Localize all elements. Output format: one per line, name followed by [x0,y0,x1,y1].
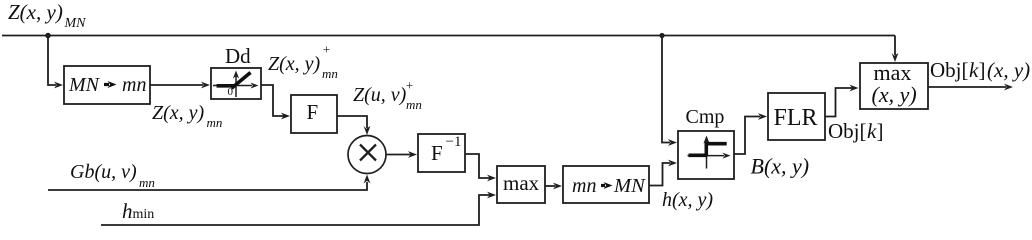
svg-text:mn: mn [572,175,596,197]
label hmin [122,199,154,223]
svg-text:Obj[: Obj[ [930,58,969,82]
svg-text:F: F [307,100,319,124]
wire MN-mn to Dd [150,84,203,86]
block F-1 [418,134,465,172]
svg-text:MN: MN [64,16,87,31]
svg-text:h(x, y): h(x, y) [662,189,713,211]
wire max to mn-MN [545,185,555,187]
svg-text:MN: MN [68,74,101,96]
svg-text:Z(x, y): Z(x, y) [152,102,205,124]
block Dd deadzone [211,68,261,99]
block F [291,95,337,133]
wire main top line [2,35,895,37]
label Z(u,v)+mn [353,78,422,113]
svg-text:h: h [122,199,133,223]
block Cmp comparator [678,131,734,179]
svg-text:−1: −1 [446,134,462,150]
wire hmin to max [101,195,490,225]
svg-text:mn: mn [139,175,155,190]
block mn->MN [563,166,649,203]
svg-text:mn: mn [322,66,338,81]
svg-text:+: + [322,42,331,57]
wire Finv to max [465,154,490,178]
svg-text:Z(x, y): Z(x, y) [268,53,321,75]
wire Gb input to multiplier [48,182,367,190]
svg-text:mn: mn [122,74,146,96]
svg-text:]: ] [979,58,986,82]
svg-text:Z(u, v): Z(u, v) [353,84,407,106]
label Z(x,y)MN input [8,0,86,31]
wire mn-MN to Cmp lower [649,163,670,186]
svg-text:k: k [969,58,979,82]
node junction A [45,33,51,39]
svg-text:B(x, y): B(x, y) [751,154,810,179]
block max2 [860,60,928,109]
wire main line to max2 top [894,36,896,56]
svg-text:(x, y): (x, y) [872,82,917,107]
svg-text:FLR: FLR [774,105,818,131]
node junction B [659,33,664,38]
svg-text:mn: mn [207,115,223,130]
svg-text:MN: MN [613,175,646,197]
wire Dd to F [261,85,284,116]
wire drop to MN-mn [48,36,56,86]
svg-text:Z(x, y): Z(x, y) [8,0,63,24]
svg-text:(x, y): (x, y) [987,58,1030,82]
block max [497,166,545,203]
wire output [928,86,1006,88]
label Obj[k] [828,119,884,143]
wire FLR to max2 [825,88,852,117]
label Z(x,y)mn [152,102,222,130]
wire main line to Cmp upper [662,36,670,143]
svg-text:Dd: Dd [225,44,251,68]
svg-text:]: ] [877,119,884,143]
label Gb(u,v)mn [70,161,155,190]
label Z(x,y)+mn [268,42,338,82]
label Obj[k](x,y) output [930,58,1030,82]
wire F to multiplier [337,116,367,128]
svg-text:Obj[: Obj[ [828,119,867,143]
block FLR [768,93,825,140]
svg-text:min: min [133,207,155,222]
svg-text:Cmp: Cmp [686,106,725,128]
svg-text:k: k [867,119,877,143]
block MN->mn [64,66,150,104]
svg-text:+: + [405,78,414,93]
svg-text:mn: mn [406,97,422,112]
multiplier X1 [348,136,386,174]
wire multiplier to Finv [386,154,411,156]
wire Cmp to FLR [734,117,760,155]
svg-text:F: F [431,141,443,165]
svg-text:max: max [503,171,540,195]
svg-text:0: 0 [228,86,234,98]
svg-text:Gb(u, v): Gb(u, v) [70,161,137,183]
